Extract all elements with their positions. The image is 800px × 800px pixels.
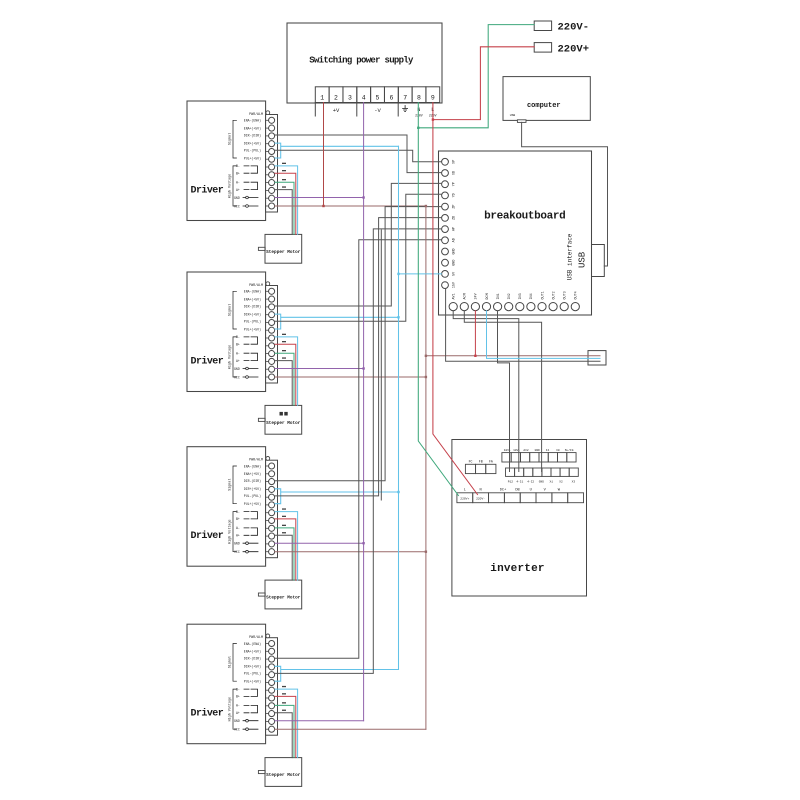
wire: driver 2 DIR+ PUL+ +5V bracket to 5V bus (275, 314, 399, 329)
svg-text:High Voltage: High Voltage (228, 519, 233, 543)
driver U5 (stepper driver 4) (187, 624, 266, 744)
svg-text:ENA+(+5V): ENA+(+5V) (244, 650, 261, 654)
svg-text:Switching power supply: Switching power supply (309, 56, 414, 66)
wire: +V rail from PSU pin 1 (323, 103, 325, 207)
svg-text:A-: A- (236, 181, 240, 185)
driver 2 terminal block pins (266, 282, 278, 383)
svg-text:DB: DB (515, 489, 520, 493)
svg-text:Driver: Driver (191, 356, 224, 368)
inverter terminals FC FB FA (465, 460, 496, 474)
wire: VCC bus rail (425, 206, 427, 729)
svg-text:SL/FG: SL/FG (565, 448, 574, 452)
wire: driver 1 DIR- to breakout pin XD (275, 135, 442, 173)
svg-text:X2: X2 (559, 480, 563, 483)
driver U4 (stepper driver 3) (187, 447, 266, 567)
svg-text:PUL+(+5V): PUL+(+5V) (244, 156, 261, 160)
wire: breakout AV1 to inverter 4-I1 (453, 311, 519, 472)
wire: driver 1 VCC to +V bus (275, 205, 426, 207)
svg-text:N: N (480, 489, 482, 493)
svg-text:W: W (558, 489, 561, 493)
wire: breakout DCM to pendant connector J1 (487, 311, 601, 359)
wire: driver 1 GND to -V bus (275, 197, 364, 199)
svg-text:B+: B+ (236, 695, 240, 699)
driver 4 terminal block pins (266, 634, 278, 735)
svg-text:OUT3: OUT3 (564, 291, 568, 299)
wires: driver 2 phase outputs B- B+ A- A+ to stepper motor M2 (275, 334, 298, 406)
computer PC1 (503, 77, 590, 123)
svg-text:X3: X3 (572, 480, 576, 483)
svg-text:B+: B+ (236, 517, 240, 521)
svg-text:GND: GND (234, 719, 240, 723)
svg-text:AD: AD (453, 238, 457, 242)
svg-text:FB: FB (479, 460, 483, 464)
svg-text:GND: GND (453, 260, 457, 266)
wire: PSU pin 9 L to 220V+ and inverter N (433, 47, 534, 495)
stepper motor M2 (258, 405, 301, 434)
wire: breakout IN1 to inverter P12 (498, 311, 510, 472)
wire: driver 3 GND to -V bus (275, 542, 364, 544)
svg-text:DIR-(DIR): DIR-(DIR) (244, 304, 261, 308)
svg-text:GND: GND (234, 196, 240, 200)
svg-text:ENA+(+5V): ENA+(+5V) (244, 297, 261, 301)
svg-text:PWR/ALM: PWR/ALM (249, 283, 263, 287)
inverter control terminal row 10V+ 10V- AI2 GND I4 I0 SL/FG (502, 448, 576, 462)
svg-text:IN1: IN1 (497, 293, 501, 299)
driver U2 (stepper driver 1) (187, 101, 266, 221)
breakout board left pin header XP XD YP YD ZP ZD AP AD GND GND 5V 15V (442, 158, 457, 288)
svg-text:I4: I4 (546, 449, 550, 452)
svg-text:U: U (530, 489, 532, 493)
svg-text:9: 9 (431, 95, 435, 102)
svg-text:PWR/ALM: PWR/ALM (249, 112, 263, 116)
wire: breakout 15V pin to pendant connector J1 (446, 289, 600, 362)
wire: driver 4 GND to -V bus (275, 720, 364, 722)
svg-text:Stepper Motor: Stepper Motor (266, 250, 301, 255)
wire: driver 3 VCC to +V bus (275, 551, 426, 553)
svg-text:DCM: DCM (486, 293, 490, 299)
wire: driver 1 PUL- to breakout pin XP (275, 150, 442, 162)
svg-text:220V+: 220V+ (460, 498, 469, 501)
svg-text:GND: GND (234, 367, 240, 371)
breakout board bottom pin header AV1 ACM 24V DCM IN1-IN4 OUT1-OUT4 (449, 291, 579, 310)
wire: -V rail from PSU pin 4 (363, 103, 365, 721)
svg-text:-V: -V (374, 107, 381, 114)
svg-text:PWR/ALM: PWR/ALM (249, 635, 263, 639)
svg-text:Stepper Motor: Stepper Motor (266, 421, 301, 426)
svg-text:FA: FA (489, 460, 493, 464)
svg-text:8: 8 (417, 95, 421, 102)
inverter terminal row P12 4-I1 4-I2 GND X1 X2 X3 (506, 468, 579, 483)
svg-text:IN4: IN4 (530, 293, 534, 299)
svg-text:1: 1 (320, 95, 324, 102)
svg-text:OUT4: OUT4 (575, 291, 579, 299)
svg-text:USB: USB (578, 251, 588, 268)
svg-text:Signal: Signal (228, 304, 233, 316)
svg-text:Driver: Driver (191, 185, 224, 197)
wire: 5V bus branch to breakout 5V pin (399, 273, 442, 275)
wire: driver 2 DIR- to breakout pin YP (275, 183, 442, 306)
svg-text:I0: I0 (556, 449, 560, 452)
svg-text:PUL-(PUL): PUL-(PUL) (244, 494, 261, 498)
svg-text:DIR-(DIR): DIR-(DIR) (244, 133, 261, 137)
wire: spare signal bus segment (380, 230, 382, 500)
svg-text:220V+: 220V+ (558, 44, 590, 56)
svg-text:IN2: IN2 (508, 293, 512, 299)
svg-text:220V-: 220V- (476, 498, 485, 501)
wire: computer USB cable to breakout USB port (522, 122, 608, 266)
stepper motor M3 (258, 580, 301, 609)
svg-text:15V: 15V (453, 281, 457, 288)
svg-text:XD: XD (453, 171, 457, 175)
svg-text:ACM: ACM (464, 293, 468, 299)
inverter power terminal row L N DC+ DB U V W (457, 489, 584, 503)
wire: driver 3 DIR- to breakout pin ZP (275, 207, 442, 481)
svg-text:PUL-(PUL): PUL-(PUL) (244, 149, 261, 153)
svg-text:5: 5 (376, 95, 380, 102)
svg-text:3: 3 (348, 95, 352, 102)
svg-text:USB: USB (510, 114, 516, 117)
svg-text:GND: GND (535, 449, 540, 452)
svg-text:AI2: AI2 (523, 449, 528, 452)
wire: driver 3 DIR+ PUL+ +5V bracket to 5V bus (275, 489, 399, 504)
svg-text:ENA-(ENA): ENA-(ENA) (244, 290, 261, 294)
svg-text:DIR-(DIR): DIR-(DIR) (244, 657, 261, 661)
svg-text:Stepper Motor: Stepper Motor (266, 596, 301, 601)
svg-text:B+: B+ (236, 172, 240, 176)
wire: driver 4 PUL- to breakout pin AP (275, 229, 442, 674)
svg-text:AP: AP (453, 227, 457, 231)
svg-text:PUL-(PUL): PUL-(PUL) (244, 672, 261, 676)
svg-text:breakoutboard: breakoutboard (484, 210, 565, 222)
svg-text:ENA+(+5V): ENA+(+5V) (244, 126, 261, 130)
stepper motor M1 (258, 234, 301, 263)
svg-text:V: V (544, 489, 547, 493)
svg-text:YD: YD (453, 193, 457, 197)
svg-text:5V: 5V (453, 271, 457, 276)
svg-text:Driver: Driver (191, 708, 224, 720)
wire: driver 4 DIR- to breakout pin AD (275, 240, 442, 659)
svg-text:Driver: Driver (191, 530, 224, 542)
svg-text:XP: XP (453, 160, 457, 164)
connector 220V+ (534, 43, 589, 56)
svg-text:ZD: ZD (453, 216, 457, 220)
svg-text:ENA-(ENA): ENA-(ENA) (244, 119, 261, 123)
svg-text:P12: P12 (508, 480, 513, 483)
svg-text:A+: A+ (236, 188, 240, 192)
svg-text:Signal: Signal (228, 133, 233, 145)
svg-text:220V-: 220V- (558, 22, 590, 34)
svg-text:ENA-(ENA): ENA-(ENA) (244, 464, 261, 468)
svg-text:USB interface: USB interface (567, 233, 574, 280)
driver 3 terminal block pins (266, 457, 278, 558)
inverter VFD1 (452, 440, 587, 597)
wire: driver 1 DIR+ PUL+ +5V bracket to 5V bus (275, 143, 399, 158)
svg-text:PUL+(+5V): PUL+(+5V) (244, 502, 261, 506)
svg-text:AV1: AV1 (453, 293, 457, 299)
pendant connector J1 (588, 351, 606, 365)
stepper motor M4 (258, 758, 301, 787)
svg-text:L: L (464, 489, 466, 493)
wire: driver 4 DIR+ PUL+ +5V bracket to 5V bus (275, 666, 399, 681)
power supply group dividers and labels +V -V ground N L (315, 103, 436, 118)
wire: 5V bus rail (398, 146, 400, 669)
svg-text:Signal: Signal (228, 656, 233, 668)
svg-text:OUT1: OUT1 (541, 291, 545, 299)
connector 220V- (534, 21, 589, 34)
svg-text:OUT2: OUT2 (552, 291, 556, 299)
svg-text:ENA+(+5V): ENA+(+5V) (244, 472, 261, 476)
svg-text:A-: A- (236, 526, 240, 530)
svg-text:YP: YP (453, 182, 457, 186)
svg-text:X1: X1 (550, 480, 554, 483)
svg-text:4: 4 (362, 95, 366, 102)
svg-text:DC+: DC+ (500, 489, 506, 493)
wire: PSU pin 8 N to 220V- and inverter L (418, 25, 534, 496)
svg-text:High Voltage: High Voltage (228, 345, 233, 369)
breakout board U1 (439, 151, 592, 315)
svg-text:DIR-(DIR): DIR-(DIR) (244, 479, 261, 483)
svg-text:PUL+(+5V): PUL+(+5V) (244, 327, 261, 331)
breakout board USB port connector (592, 245, 605, 277)
svg-text:PUL-(PUL): PUL-(PUL) (244, 320, 261, 324)
svg-text:IN3: IN3 (519, 293, 523, 299)
svg-text:A-: A- (236, 704, 240, 708)
svg-text:PUL+(+5V): PUL+(+5V) (244, 680, 261, 684)
wires: driver 4 phase outputs B- B+ A- A+ to stepper motor M4 (275, 686, 298, 758)
svg-text:ENA-(ENA): ENA-(ENA) (244, 642, 261, 646)
svg-text:+V: +V (333, 107, 340, 114)
svg-text:DIR+(+5V): DIR+(+5V) (244, 141, 261, 145)
switching power supply PS1 (287, 23, 442, 103)
svg-text:A+: A+ (236, 534, 240, 538)
svg-text:4-I2: 4-I2 (527, 480, 534, 483)
power supply terminal strip pins 1-9 (315, 87, 439, 103)
svg-text:ZP: ZP (453, 205, 457, 209)
svg-text:7: 7 (403, 95, 407, 102)
wire: driver 4 VCC to +V bus (275, 728, 426, 730)
driver U3 (stepper driver 2) (187, 272, 266, 392)
svg-text:PWR/ALM: PWR/ALM (249, 458, 263, 462)
driver 1 terminal block pins (266, 111, 278, 212)
svg-text:Stepper Motor: Stepper Motor (266, 773, 301, 778)
svg-text:4-I1: 4-I1 (516, 480, 523, 483)
svg-text:Signal: Signal (228, 479, 233, 491)
wire: driver 2 PUL- to breakout pin YD (275, 194, 442, 321)
svg-text:DIR+(+5V): DIR+(+5V) (244, 665, 261, 669)
svg-text:B+: B+ (236, 343, 240, 347)
wire: driver 2 VCC to +V bus (275, 376, 426, 378)
wire: breakout 24V to VCC branch (474, 311, 476, 356)
svg-text:computer: computer (527, 102, 561, 110)
wire: VCC bus branch to pendant connector J1 (426, 355, 600, 357)
svg-text:A+: A+ (236, 359, 240, 363)
junction nodes (322, 118, 476, 553)
svg-text:High Voltage: High Voltage (228, 174, 233, 198)
svg-text:GND: GND (539, 480, 544, 483)
svg-text:DIR+(+5V): DIR+(+5V) (244, 487, 261, 491)
svg-text:6: 6 (389, 95, 393, 102)
wire: driver 3 PUL- to breakout pin ZD (275, 218, 442, 496)
wires: driver 3 phase outputs B- B+ A- A+ to stepper motor M3 (275, 508, 298, 580)
svg-text:220V: 220V (415, 114, 423, 118)
svg-text:A-: A- (236, 352, 240, 356)
svg-text:24V: 24V (475, 292, 479, 299)
svg-text:2: 2 (334, 95, 338, 102)
wire: breakout ACM to inverter GND (464, 311, 541, 472)
wires: driver 1 phase outputs B- B+ A- A+ to stepper motor M1 (275, 163, 298, 235)
wire: driver 2 GND to -V bus (275, 368, 364, 370)
svg-text:inverter: inverter (490, 563, 544, 575)
svg-text:GND: GND (234, 542, 240, 546)
svg-text:GND: GND (453, 248, 457, 254)
svg-text:High Voltage: High Voltage (228, 697, 233, 721)
svg-text:DIR+(+5V): DIR+(+5V) (244, 312, 261, 316)
svg-text:A+: A+ (236, 711, 240, 715)
svg-text:FC: FC (469, 460, 473, 464)
